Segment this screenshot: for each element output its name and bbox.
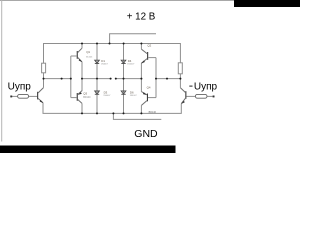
diode D3 — [95, 91, 100, 94]
wire input resistor to right pin — [207, 95, 212, 97]
wire emitters vertical right — [140, 63, 142, 91]
transistor QL (input left) — [37, 79, 43, 104]
border left edge line — [1, 0, 2, 142]
svg-text:+ 12 В: + 12 В — [127, 12, 156, 23]
wire mid net M1 — [44, 73, 71, 79]
wire diode column right — [123, 44, 125, 114]
svg-text:Q4: Q4 — [147, 85, 151, 89]
resistor R1 — [42, 63, 46, 73]
border top edge line — [0, 0, 300, 1]
junction R1 / QL collector node — [43, 78, 45, 80]
svg-text:Uупр: Uупр — [194, 82, 218, 93]
wire diode column left — [96, 44, 98, 114]
junction Q3 collector / bottom rail — [81, 112, 83, 114]
wire top rail — [44, 44, 181, 64]
transistor Q4 (mirrored PNP) — [141, 92, 156, 114]
junction R2 / QR collector node — [179, 78, 181, 80]
wire bases vertical left — [70, 56, 72, 98]
wire GND stub — [113, 113, 161, 119]
transistor Q1 — [71, 44, 83, 63]
wire input resistor to QL base — [29, 95, 37, 97]
junction +12V stub / top rail — [109, 43, 111, 45]
pin left input — [10, 96, 12, 98]
black bar bottom — [0, 146, 176, 154]
junction Q1 collector / top rail — [81, 43, 83, 45]
svg-text:1N4007: 1N4007 — [127, 63, 135, 65]
wire emitters vertical left — [81, 62, 83, 91]
node OUT-L end — [110, 78, 112, 80]
black bar top right — [234, 0, 300, 7]
svg-text:1N4007: 1N4007 — [101, 63, 109, 65]
wire bases vertical right — [155, 58, 157, 98]
svg-text:D1: D1 — [101, 59, 105, 63]
junction D4 column / top rail — [123, 43, 125, 45]
diode D4 — [121, 60, 126, 63]
wire left pin to input resistor — [12, 95, 18, 97]
junction on net M2 — [166, 78, 168, 80]
junction on net M1 — [61, 78, 63, 80]
resistor R2 — [178, 63, 182, 74]
junction Q2 collector / top rail — [140, 43, 142, 45]
junction D4-D6 column / OUT-R — [123, 78, 125, 80]
label -Uupr right minus dash — [189, 86, 192, 87]
wire mid net OUT-L — [82, 78, 111, 80]
svg-text:BD140: BD140 — [83, 96, 91, 99]
svg-text:GND: GND — [134, 128, 158, 140]
svg-text:Q2: Q2 — [147, 44, 151, 48]
junction M2 / right bases — [155, 78, 157, 80]
node OUT-R end — [115, 78, 117, 80]
junction M1 / left bases — [70, 78, 72, 80]
junction D1-D3 column / OUT-L — [96, 78, 98, 80]
wire mid net M2 — [156, 74, 180, 79]
svg-text:BD140: BD140 — [149, 111, 157, 114]
junction Q4 collector / bottom rail — [140, 112, 142, 114]
svg-text:D4: D4 — [128, 59, 132, 63]
svg-text:D6: D6 — [130, 90, 134, 94]
svg-text:1N4007: 1N4007 — [103, 95, 111, 97]
wire mid net OUT-R — [116, 78, 142, 80]
svg-text:Q3: Q3 — [83, 91, 87, 95]
wire bottom rail — [43, 103, 181, 114]
wire +12V stub — [110, 34, 156, 44]
junction D1 column / top rail — [96, 43, 98, 45]
resistor right input (stadium) — [195, 94, 207, 98]
svg-text:1N4007: 1N4007 — [130, 95, 138, 97]
resistor left input (stadium) — [18, 94, 29, 98]
junction GND stub / bottom rail — [112, 112, 114, 114]
transistor QR (input right, mirrored NPN) — [180, 79, 186, 104]
svg-text:BC546: BC546 — [86, 56, 93, 58]
svg-text:Uупр: Uупр — [8, 82, 32, 93]
junction right emitters node — [140, 78, 142, 80]
svg-text:D3: D3 — [104, 90, 108, 94]
transistor Q2 (mirrored NPN) — [141, 44, 156, 64]
wire QR base to input resistor — [186, 95, 195, 97]
junction left emitters node — [81, 78, 83, 80]
diode D6 — [121, 91, 126, 94]
junction D3 column / bottom rail — [96, 112, 98, 114]
pin right input — [213, 96, 215, 98]
transistor Q3 (PNP) — [71, 91, 82, 114]
junction D6 column / bottom rail — [123, 112, 125, 114]
svg-text:Q1: Q1 — [86, 50, 90, 54]
diode D1 — [95, 60, 100, 63]
